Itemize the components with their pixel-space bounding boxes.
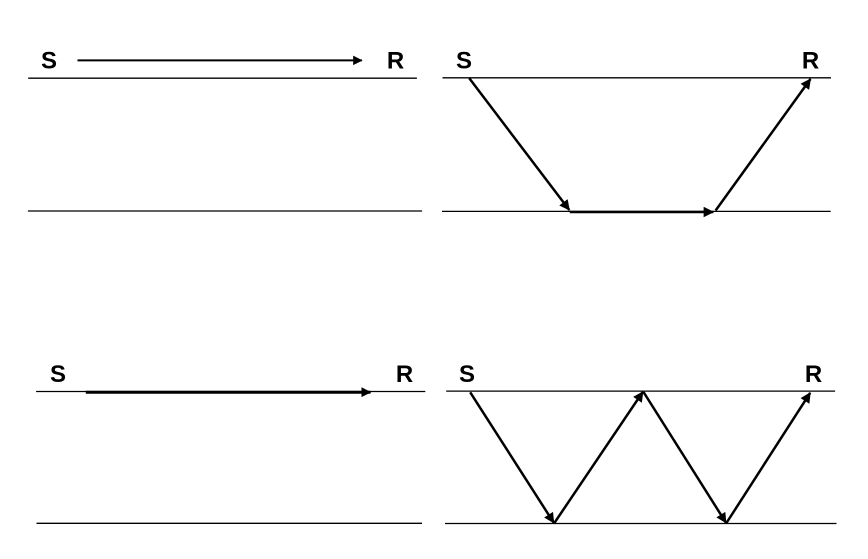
svg-text:S: S <box>459 361 475 388</box>
svg-text:R: R <box>396 361 413 388</box>
wire: panel 1 surface line <box>28 77 417 79</box>
wire: panel 1 interface line <box>28 210 422 212</box>
wire: panel 4 ray arrow down to interface again <box>644 392 727 523</box>
wire: panel 4 ray arrow S down to interface <box>470 392 554 523</box>
wire: panel 1 direct ray arrow S to R <box>78 59 362 61</box>
wire: panel 4 ray arrow up to surface peak <box>554 392 643 524</box>
svg-text:R: R <box>805 361 822 388</box>
wire: panel 2 head-wave ray arrow along interface <box>570 211 714 214</box>
wire: panel 3 interface line <box>37 522 423 524</box>
wire: panel 2 upgoing ray arrow to R <box>716 79 811 211</box>
svg-text:S: S <box>456 47 472 74</box>
wire: panel 4 surface line <box>446 390 835 392</box>
svg-text:S: S <box>41 47 57 74</box>
wire: panel 3 thick direct ray arrow along surface <box>86 391 371 394</box>
wire: panel 3 surface line <box>36 391 425 393</box>
wire: panel 2 interface line <box>442 210 831 212</box>
svg-text:S: S <box>50 361 66 388</box>
wire: panel 2 downgoing ray arrow <box>469 78 569 210</box>
wire: panel 2 surface line <box>443 77 832 79</box>
wire: panel 4 ray arrow up to R <box>726 393 810 524</box>
svg-text:R: R <box>802 47 819 74</box>
svg-text:R: R <box>387 47 404 74</box>
wire: panel 4 interface line <box>445 523 837 525</box>
